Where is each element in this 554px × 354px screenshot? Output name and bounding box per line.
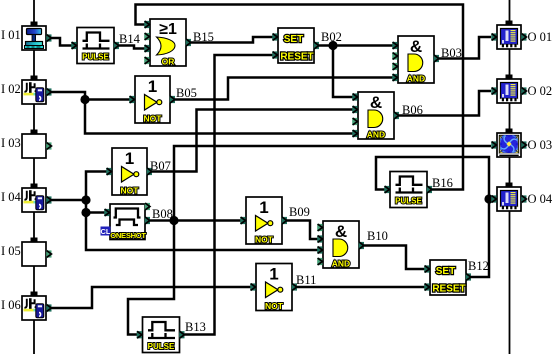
- svg-text:B06: B06: [402, 103, 423, 117]
- wire B08 branch to B13: [128, 220, 174, 335]
- svg-text:ONESHOT: ONESHOT: [110, 231, 146, 240]
- svg-text:B15: B15: [193, 30, 214, 44]
- wire B12 branch to B16: [376, 157, 489, 199]
- input I06 switch: [22, 292, 52, 321]
- svg-text:RESET: RESET: [280, 52, 313, 63]
- AND gate B06: [352, 92, 399, 140]
- input I05 empty: [22, 238, 52, 267]
- svg-text:I 04: I 04: [1, 190, 22, 204]
- svg-text:B14: B14: [119, 32, 141, 46]
- junction node I04 lower: [81, 208, 90, 217]
- junction node at B02 output: [328, 41, 337, 50]
- wire B13 to B02 RESET: [179, 55, 275, 335]
- wire B14 to B15 input 3: [114, 46, 147, 49]
- svg-text:1: 1: [269, 265, 278, 284]
- svg-text:NOT: NOT: [121, 186, 140, 196]
- pulse block B13: [137, 317, 185, 353]
- wire B03 to O01: [434, 37, 491, 59]
- output O03 fan: [491, 129, 526, 158]
- svg-text:SET: SET: [436, 266, 455, 277]
- svg-text:B02: B02: [321, 30, 342, 44]
- wire I02 to B05: [50, 92, 132, 100]
- svg-text:NOT: NOT: [144, 114, 163, 124]
- wire B09 to B10 input 2: [282, 221, 320, 240]
- SET/RESET block B02: [272, 28, 319, 63]
- output O01 relay: [491, 21, 526, 50]
- pulse block B16: [384, 172, 432, 208]
- svg-text:PULSE: PULSE: [395, 197, 422, 206]
- svg-text:B10: B10: [367, 229, 388, 243]
- wire B11 to B12 RESET: [292, 286, 427, 289]
- NOT gate B07: [106, 148, 152, 196]
- svg-text:O 01: O 01: [528, 30, 553, 44]
- svg-text:O 03: O 03: [528, 138, 553, 152]
- SET/RESET block B12: [424, 260, 471, 295]
- NOT gate B11: [250, 264, 297, 312]
- junction node at B08 output: [169, 216, 178, 225]
- svg-text:NOT: NOT: [265, 301, 284, 311]
- svg-text:&: &: [335, 222, 347, 241]
- wire B15 to B02 SET: [186, 37, 275, 43]
- right power rail: [509, 0, 511, 354]
- wire B08 to B09: [145, 219, 243, 222]
- wire B10 to B12 SET: [359, 246, 427, 270]
- svg-text:1: 1: [259, 198, 268, 217]
- wire I01 to B14: [50, 38, 74, 46]
- svg-text:&: &: [410, 37, 422, 56]
- svg-text:I 02: I 02: [1, 82, 21, 96]
- svg-text:PULSE: PULSE: [82, 53, 109, 62]
- input I04 switch: [22, 184, 52, 213]
- wire B02 branch to B06 input 1: [333, 46, 355, 98]
- wire I04 branch to B07: [86, 172, 109, 201]
- wire B02 to B03 input 1: [314, 44, 395, 47]
- svg-text:&: &: [370, 93, 382, 112]
- wire I06 to B11: [50, 287, 253, 308]
- input I02 switch: [22, 76, 52, 105]
- AND gate B03: [392, 36, 439, 84]
- svg-text:1: 1: [125, 149, 134, 168]
- svg-text:≥1: ≥1: [159, 21, 177, 38]
- svg-text:O 04: O 04: [528, 192, 553, 206]
- svg-text:1: 1: [148, 77, 157, 96]
- svg-text:AND: AND: [407, 74, 425, 84]
- wire I04 to junction: [50, 199, 86, 202]
- wire I04 branch to B10 input 3: [86, 213, 320, 251]
- pulse block B14: [71, 28, 119, 64]
- svg-text:I 06: I 06: [1, 298, 21, 312]
- svg-text:B11: B11: [296, 273, 316, 287]
- junction node I04 upper: [81, 195, 90, 204]
- svg-text:OR: OR: [162, 57, 175, 67]
- svg-text:B16: B16: [432, 176, 453, 190]
- wire B07 to B06 input 2: [147, 110, 355, 172]
- input I03 empty: [22, 130, 52, 159]
- NOT gate B09: [240, 197, 287, 245]
- wire B12 to O04: [466, 199, 491, 277]
- wire B08 branch to O03: [174, 146, 491, 220]
- input I01 pushbutton: [22, 22, 52, 51]
- output O04 relay: [491, 183, 526, 212]
- svg-text:B08: B08: [152, 207, 173, 221]
- wire B06 to O02: [394, 91, 491, 116]
- AND gate B10: [317, 221, 364, 269]
- junction node on I02 net: [80, 95, 89, 104]
- svg-text:I 03: I 03: [1, 136, 21, 150]
- NOT gate B05: [129, 76, 175, 124]
- svg-text:SET: SET: [284, 34, 303, 45]
- svg-text:B09: B09: [289, 205, 310, 219]
- svg-text:I 05: I 05: [1, 244, 21, 258]
- svg-text:NOT: NOT: [255, 235, 274, 245]
- svg-text:B07: B07: [150, 159, 171, 173]
- junction node on B12 net: [484, 194, 493, 203]
- svg-text:B12: B12: [468, 259, 489, 273]
- ONESHOT block B08: [101, 203, 151, 240]
- wire I02 branch to B06 input 4: [85, 100, 355, 134]
- svg-text:AND: AND: [332, 259, 350, 269]
- wire B16 feedback to B15 input 1: [136, 5, 464, 190]
- svg-text:RESET: RESET: [432, 284, 465, 295]
- OR gate B15: [144, 19, 191, 67]
- svg-text:B13: B13: [185, 320, 206, 334]
- svg-text:O 02: O 02: [528, 84, 553, 98]
- svg-text:AND: AND: [367, 130, 385, 140]
- wire I04 branch to B08: [86, 200, 107, 213]
- svg-text:PULSE: PULSE: [148, 342, 175, 351]
- wire B05 to B03 input 4: [170, 78, 395, 100]
- svg-text:B05: B05: [176, 86, 197, 100]
- svg-text:I 01: I 01: [1, 28, 21, 42]
- output O02 relay: [491, 75, 526, 104]
- svg-text:B03: B03: [441, 46, 462, 60]
- left power rail: [33, 0, 35, 354]
